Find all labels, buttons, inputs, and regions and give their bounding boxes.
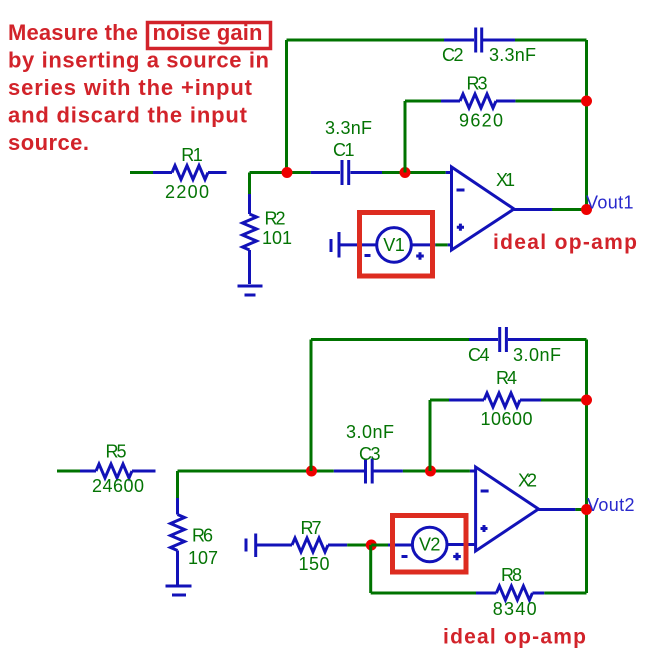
svg-text:101: 101 (262, 228, 292, 248)
wire node E into V2 (371, 544, 388, 547)
wire V1 to op-amp plus (411, 243, 435, 246)
svg-text:R2: R2 (265, 209, 286, 229)
resistor R8 (476, 586, 544, 600)
resistor R1 (130, 166, 227, 180)
wire C2 branch top (287, 40, 587, 210)
svg-text:ideal op-amp: ideal op-amp (493, 231, 637, 254)
noise gain highlight box (148, 23, 271, 49)
wire down to R6 (176, 471, 179, 498)
wire node A vertical down to R2 (248, 173, 251, 195)
capacitor C2 (444, 28, 515, 53)
V2 highlight box (393, 516, 467, 573)
capacitor C3 (334, 459, 403, 484)
svg-text:10600: 10600 (481, 409, 533, 429)
resistor R5 (57, 464, 156, 478)
svg-text:3.3nF: 3.3nF (489, 45, 536, 65)
svg-text:R7: R7 (301, 518, 322, 538)
svg-text:V1: V1 (383, 235, 405, 255)
wire V2 to op-amp plus (447, 543, 476, 546)
svg-text:by inserting a source in: by inserting a source in (8, 48, 269, 73)
resistor R6 (171, 498, 185, 585)
bottom main wire (178, 470, 334, 473)
svg-text:R6: R6 (192, 526, 213, 546)
svg-text:107: 107 (188, 548, 218, 568)
wire node C up to C4 branch (310, 340, 313, 472)
wire node D up to R4 (429, 400, 432, 471)
V1 highlight box (360, 213, 433, 277)
output wire X2 (539, 508, 576, 511)
wire C3 to node D (403, 470, 470, 473)
svg-text:R8: R8 (501, 565, 522, 585)
svg-text:V2: V2 (419, 535, 441, 555)
junction node C dot (306, 466, 317, 477)
svg-text:24600: 24600 (92, 476, 144, 496)
svg-text:and discard the input: and discard the input (8, 103, 248, 128)
svg-text:3.0nF: 3.0nF (346, 422, 394, 442)
svg-text:2200: 2200 (165, 182, 209, 202)
wire node E down to R8 row (371, 545, 476, 593)
V1 left terminal (331, 232, 339, 258)
svg-text:X2: X2 (518, 471, 537, 491)
op-amp X2 (476, 467, 539, 551)
output wire X1 (514, 208, 552, 211)
capacitor C1 (311, 160, 382, 185)
op-amp X1 (452, 167, 515, 250)
svg-text:ideal op-amp: ideal op-amp (443, 626, 586, 649)
junction node D dot (425, 466, 436, 477)
resistor R3 (405, 100, 587, 103)
node Vout1 dot (581, 204, 592, 215)
resistor R7 (256, 538, 348, 552)
junction node B dot (400, 167, 411, 178)
svg-text:R5: R5 (106, 442, 127, 462)
svg-text:3.3nF: 3.3nF (325, 118, 372, 138)
capacitor C4 (469, 327, 540, 352)
resistor R2 (243, 194, 257, 284)
svg-text:series with the +input: series with the +input (8, 75, 253, 100)
wire C1 to node B (382, 171, 446, 174)
ground (R6) (166, 586, 192, 595)
svg-text:150: 150 (299, 554, 330, 574)
ground (R2) (238, 286, 263, 295)
V2 polarity marks (402, 553, 461, 561)
svg-text:R3: R3 (467, 74, 488, 94)
svg-text:Measure the: Measure the (8, 20, 138, 45)
svg-text:Vout1: Vout1 (586, 193, 634, 213)
svg-text:Vout2: Vout2 (587, 495, 635, 515)
junction node E dot (366, 540, 377, 551)
svg-text:C1: C1 (333, 140, 355, 160)
node Vout2 dot (581, 504, 592, 515)
resistor R4 (430, 399, 587, 402)
svg-text:C3: C3 (359, 444, 381, 464)
wire node B up to R3 (404, 101, 407, 173)
wire node A horizontal (250, 171, 311, 174)
R7 left terminal (246, 534, 256, 558)
junction node R3/C2 dot (581, 96, 592, 107)
svg-text:X1: X1 (496, 170, 515, 190)
lead into op-amp minus (446, 171, 452, 174)
source V2 (412, 527, 447, 562)
svg-text:C2: C2 (442, 45, 464, 65)
wire up from node A to C2 branch (285, 40, 288, 173)
V1 polarity marks (365, 252, 424, 260)
source V1 (377, 228, 412, 263)
svg-text:3.0nF: 3.0nF (513, 345, 561, 365)
wire C4 branch (311, 340, 587, 594)
svg-text:source.: source. (8, 130, 89, 155)
annotation text block (8, 20, 269, 155)
svg-text:9620: 9620 (459, 111, 503, 131)
svg-text:R1: R1 (181, 145, 203, 165)
wire terminal to V1 (339, 243, 377, 246)
junction node A dot (282, 167, 293, 178)
junction node R4 dot (581, 395, 592, 406)
svg-text:R4: R4 (496, 368, 517, 388)
svg-text:8340: 8340 (493, 599, 537, 619)
svg-text:C4: C4 (468, 345, 490, 365)
